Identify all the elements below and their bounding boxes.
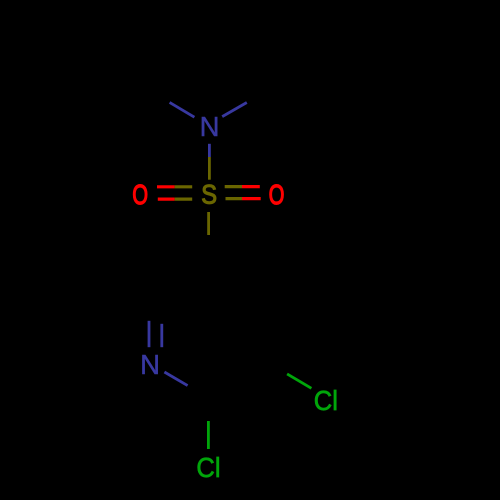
double bond S=O left, lower line (O half red) — [158, 198, 175, 201]
bond N-S (N half) — [208, 144, 211, 157]
double bond S=O left, lower line (S half olive) — [175, 198, 193, 201]
svg-text:O: O — [132, 180, 148, 211]
svg-text:N: N — [200, 111, 220, 142]
atom label Cl (right chlorine) — [314, 385, 338, 416]
svg-text:Cl: Cl — [314, 385, 338, 416]
bond C5-Cl (Cl half, diagonal) — [287, 374, 311, 388]
double bond C2=N1 inner line (N half) — [160, 324, 163, 347]
bond N-S (S half) — [208, 157, 211, 180]
atom label N (dimethylamino nitrogen) — [200, 111, 220, 142]
svg-text:N: N — [140, 349, 160, 380]
double bond S=O right, lower line (O half red) — [242, 197, 261, 200]
bond N-CH3 (right methyl, N half) — [222, 103, 247, 117]
bond S-C3 (S half) — [207, 212, 210, 235]
double bond S=O right, upper line (O half red) — [242, 185, 260, 188]
atom label O (right sulfonyl oxygen) — [269, 180, 285, 211]
double bond C2=N1 main line (N half) — [148, 321, 151, 347]
double bond S=O left, upper line (O half red) — [157, 185, 175, 188]
svg-text:O: O — [269, 180, 285, 211]
bond C6-Cl (Cl half, vertical) — [207, 421, 210, 449]
bond N-CH3 (left methyl, N half) — [170, 102, 195, 117]
svg-text:S: S — [201, 180, 217, 210]
svg-text:Cl: Cl — [196, 452, 220, 483]
double bond S=O right, lower line (S half olive) — [226, 197, 243, 200]
double bond S=O right, upper line (S half olive) — [225, 185, 242, 188]
double bond S=O left, upper line (S half olive) — [175, 185, 193, 188]
bond N1-C6 (N half) — [164, 372, 187, 386]
atom label Cl (bottom chlorine) — [196, 452, 220, 483]
atom label N (pyridine ring nitrogen N1) — [140, 349, 160, 380]
atom label O (left sulfonyl oxygen) — [132, 180, 148, 211]
atom label S (sulfonyl sulfur) — [201, 180, 217, 210]
